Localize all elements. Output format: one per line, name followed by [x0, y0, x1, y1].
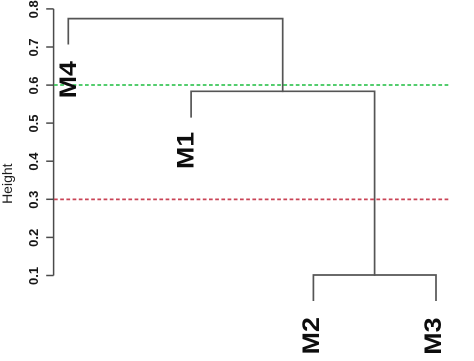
svg-text:M4: M4: [55, 60, 82, 98]
dendrogram lines: [68, 19, 436, 301]
y-axis line: [53, 9, 55, 276]
svg-text:0.6: 0.6: [26, 76, 41, 94]
svg-text:0.7: 0.7: [26, 38, 41, 56]
svg-text:0.5: 0.5: [26, 114, 41, 132]
svg-text:0.1: 0.1: [26, 267, 41, 285]
y-axis ticks: [46, 9, 53, 276]
svg-text:M3: M3: [420, 318, 447, 355]
svg-text:0.4: 0.4: [26, 152, 41, 171]
svg-text:M2: M2: [298, 317, 325, 354]
svg-text:M1: M1: [172, 132, 199, 169]
svg-text:0.2: 0.2: [26, 229, 41, 247]
svg-text:0.3: 0.3: [26, 191, 41, 209]
leaf labels: [55, 60, 447, 354]
red dashed cut line at h=0.3: [54, 198, 449, 200]
merge: M1 + cluster(M2,M3): [191, 91, 375, 275]
y-axis tick labels: [26, 0, 41, 285]
green dashed cut line at h=0.6: [54, 84, 449, 86]
merge: M2 + M3: [313, 275, 436, 300]
svg-text:0.8: 0.8: [26, 0, 41, 18]
svg-text:Height: Height: [0, 163, 15, 204]
root merge: M4 + cluster(M1,(M2,M3)): [68, 19, 282, 92]
